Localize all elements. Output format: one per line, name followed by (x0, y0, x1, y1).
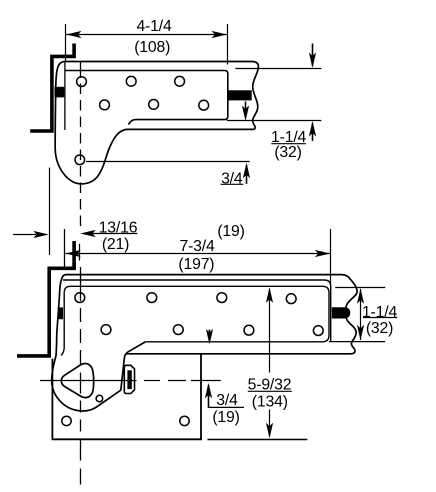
small hole below cam (96, 395, 103, 402)
projection line part left edge (64, 229, 66, 267)
bumper black rect right (top view) (228, 90, 251, 100)
svg-text:(134): (134) (252, 394, 288, 411)
svg-text:13/16: 13/16 (99, 220, 138, 237)
mounting plate outline (bottom view) (52, 354, 201, 440)
dim 5-9/32 dimension line lower segment (269, 410, 271, 437)
fold line at arm bottom right segment (329, 341, 385, 343)
svg-text:7-3/4: 7-3/4 (179, 238, 215, 255)
dim 13/16 left leader with right arrowhead (13, 234, 36, 236)
dim 4-1/4 right arrowhead (212, 31, 228, 38)
hole row1 (bottom view) (75, 293, 296, 304)
pivot hole in bulge (top view) (75, 155, 85, 165)
dim 5-9/32 up arrowhead (266, 287, 273, 303)
dim 1-1/4 top extension line (bottom view) (335, 287, 385, 289)
dim 1-1/4 dimension line with arrows (bottom view) (360, 289, 362, 340)
svg-text:(197): (197) (178, 256, 214, 273)
short line under inner arrow (227, 120, 321, 122)
svg-text:(32): (32) (274, 144, 301, 161)
svg-text:1-1/4: 1-1/4 (362, 304, 398, 321)
svg-text:(108): (108) (134, 39, 170, 56)
horizontal centerline solid part (40, 380, 137, 382)
slot bumper outer capsule (124, 365, 134, 393)
dim 7-3/4 right arrowhead (315, 250, 331, 257)
short centerline segment at 7-3/4 (79, 244, 81, 261)
horizontal centerline tick at 3/4 arrow (191, 380, 221, 382)
hole bottom row (bottom view) (62, 416, 189, 425)
inner down arrow at flange bottom (top view) (245, 102, 247, 118)
dim 3/4 down arrow (bottom view) (209, 330, 211, 340)
hole row2 (bottom view) (101, 325, 323, 336)
dim 4-1/4 dimension line (66, 34, 228, 36)
vertical centerline (top view) (80, 62, 82, 229)
door edge thick L (top view) (30, 44, 74, 132)
slot bumper inner bar (127, 370, 131, 389)
dim 4-1/4 right extension line (227, 24, 229, 65)
svg-text:(21): (21) (102, 236, 129, 253)
vertical centerline (bottom view) (80, 267, 82, 490)
svg-text:3/4: 3/4 (216, 392, 238, 409)
fold line / inner rectangle (top view) (65, 71, 227, 125)
dim 1-1/4 top extension line (top view) (235, 68, 321, 70)
dim 4-1/4 left arrowhead (66, 31, 82, 38)
pivot hole leader line (top view) (86, 161, 250, 163)
extension line door face (49, 168, 51, 256)
inner flange edge line (top view left) (64, 63, 66, 131)
svg-text:4-1/4: 4-1/4 (136, 18, 172, 35)
hinge body outline (bottom view) (52, 275, 357, 411)
dim 5-9/32 dimension line upper segment (269, 289, 271, 373)
hole row1 (top view) (77, 76, 185, 86)
bumper black rect right (bottom view) (332, 307, 351, 318)
dim 5-9/32 down arrowhead (266, 423, 273, 439)
svg-text:(19): (19) (212, 409, 239, 426)
bumper black rect left (top view) (55, 87, 65, 98)
hole row2 (top view) (100, 100, 209, 111)
dim 7-3/4 dimension line (66, 253, 331, 255)
dim 3/4 up arrow (top view) (246, 165, 248, 184)
dim 7-3/4 right extension line (330, 229, 332, 286)
latch cam rounded triangle (61, 364, 93, 398)
horizontal centerline dashes (144, 380, 160, 382)
dim 3/4 up arrow (bottom view) (208, 385, 210, 408)
dim 5-9/32 bottom extension line (208, 439, 308, 441)
fold line 1 with right corner (bottom view) (63, 280, 331, 341)
dim 1-1/4 down arrow (top view) (312, 44, 314, 67)
svg-text:(32): (32) (366, 320, 393, 337)
hinge arm outline (top view) (55, 62, 258, 184)
dim 1-1/4 up arrow (top view) (312, 123, 314, 141)
fold line 2 inner rounded rect (bottom view) (61, 286, 329, 355)
door edge thick L (bottom view) (17, 241, 74, 356)
dim 4-1/4 left extension line (65, 24, 67, 61)
bumper black rect left (bottom view) (58, 307, 63, 319)
dim 13/16 right leader with left arrowhead (92, 233, 137, 235)
dim 7-3/4 left arrowhead (65, 250, 81, 257)
svg-text:(19): (19) (217, 223, 244, 240)
